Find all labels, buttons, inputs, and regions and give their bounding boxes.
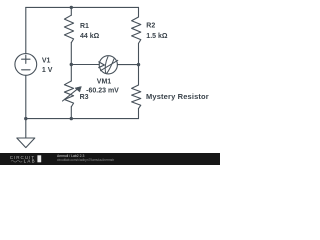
node middle left (R1/R3/VM1) (70, 63, 73, 66)
wire right branch top stub (top corner to R2) (138, 7, 140, 17)
wire left branch bottom (V1 bottom to bottom node) (25, 75, 27, 118)
wire left branch top (top corner to V1 top) (25, 7, 27, 53)
svg-text:circuitlab.com/c/adbyn79amvka-: circuitlab.com/c/adbyn79amvka-thermstr (57, 158, 115, 162)
node bottom middle (R3/bottom wire) (70, 117, 73, 120)
voltage source V1 (15, 54, 37, 76)
wire voltmeter right lead (117, 64, 138, 66)
wire top horizontal (26, 6, 139, 8)
wire R1 bottom to middle node (70, 43, 72, 65)
svg-text:V1: V1 (42, 58, 51, 65)
svg-text:R2: R2 (146, 23, 155, 30)
node bottom left (ground) (24, 117, 27, 120)
footer logo wave (11, 161, 22, 163)
ground (17, 138, 35, 148)
svg-text:R3: R3 (80, 94, 89, 101)
svg-text:VM1: VM1 (97, 79, 112, 86)
svg-text:1 V: 1 V (42, 67, 53, 74)
svg-text:Mystery Resistor: Mystery Resistor (146, 92, 209, 101)
svg-text:1.5 kΩ: 1.5 kΩ (146, 33, 168, 40)
voltmeter VM1 (99, 56, 118, 74)
wire right node to Mystery Resistor top (138, 65, 140, 85)
wire middle node to R3 top (70, 65, 72, 82)
wire R3 bottom to bottom wire (70, 107, 72, 119)
svg-text:-60.23 mV: -60.23 mV (86, 87, 119, 94)
footer logo white mark (37, 155, 41, 162)
resistor R1 (64, 15, 73, 43)
footer watermark bar (0, 153, 220, 165)
wire ground stub (25, 119, 27, 138)
svg-text:44 kΩ: 44 kΩ (80, 33, 100, 40)
mystery resistor (132, 85, 141, 109)
node middle right (R2/mystery/VM1) (137, 63, 140, 66)
wire middle branch top stub (top node to R1) (70, 7, 72, 15)
wire bottom horizontal (26, 118, 139, 120)
svg-text:LAB: LAB (24, 159, 36, 164)
resistor R2 (132, 17, 141, 43)
wire Mystery Resistor bottom to bottom wire (138, 109, 140, 119)
rheostat R3 (63, 81, 82, 107)
wire R2 bottom to right node (138, 43, 140, 64)
svg-text:R1: R1 (80, 23, 89, 30)
node top (R1/top wire) (70, 6, 73, 9)
wire voltmeter left lead (71, 64, 99, 66)
